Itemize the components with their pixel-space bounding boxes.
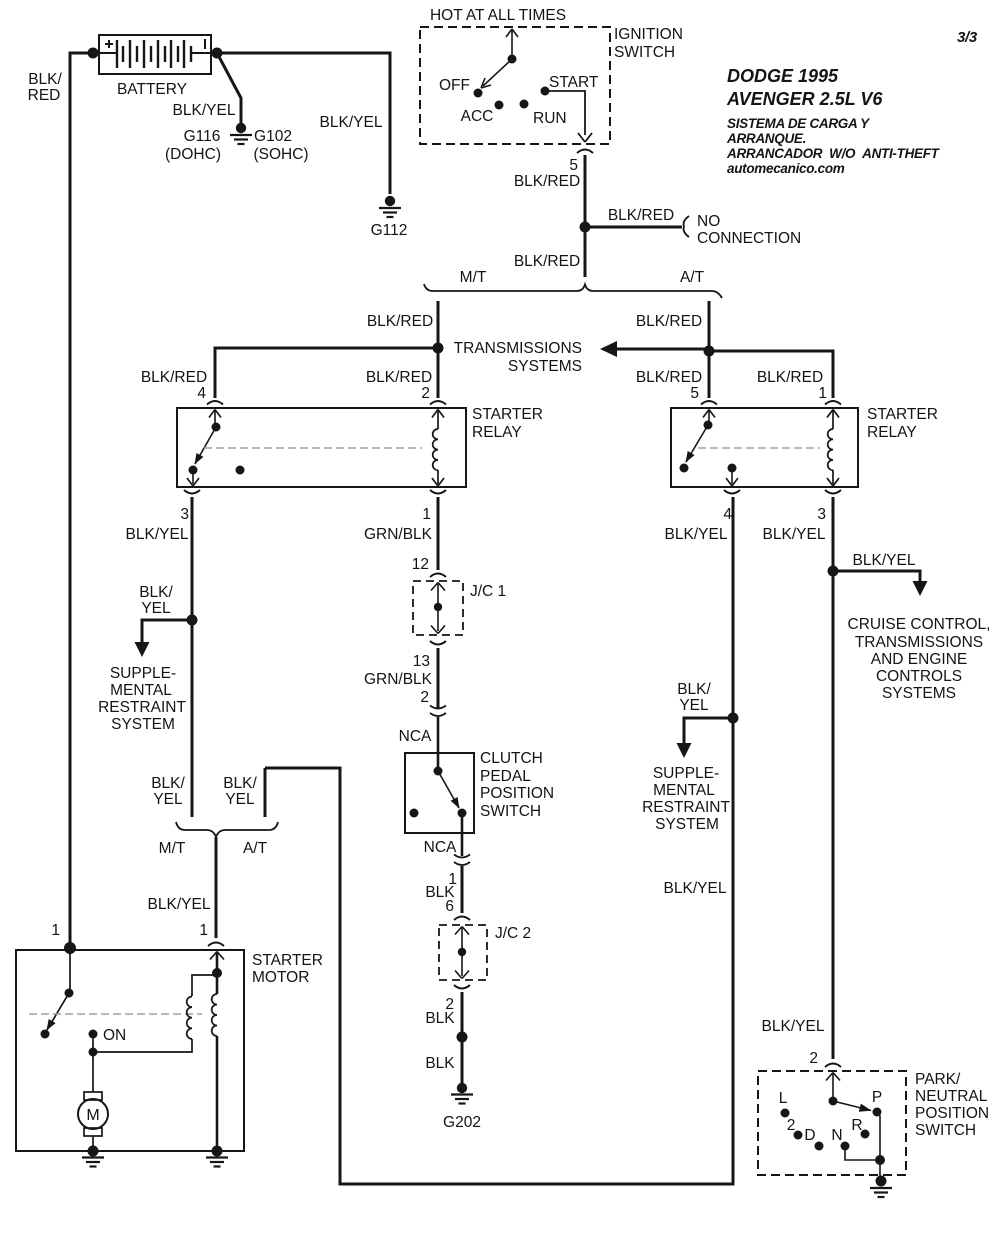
svg-text:NCA: NCA bbox=[399, 728, 432, 745]
wire arrow to transmissions systems bbox=[612, 348, 709, 351]
connector right relay pin 5 bbox=[701, 401, 717, 405]
svg-text:AVENGER 2.5L V6: AVENGER 2.5L V6 bbox=[726, 89, 883, 109]
svg-text:SYSTEM: SYSTEM bbox=[111, 716, 175, 733]
svg-text:2: 2 bbox=[787, 1117, 796, 1134]
svg-text:J/C 1: J/C 1 bbox=[470, 583, 506, 600]
svg-text:STARTER: STARTER bbox=[867, 406, 938, 423]
brace M/T - A/T merge bbox=[176, 822, 278, 837]
wire left relay pin3 down (BLK/YEL) bbox=[191, 497, 194, 817]
svg-text:2: 2 bbox=[809, 1050, 818, 1067]
svg-text:1: 1 bbox=[422, 506, 431, 523]
svg-text:M/T: M/T bbox=[159, 840, 186, 857]
node N contact bbox=[841, 1142, 850, 1151]
svg-text:BLK/RED: BLK/RED bbox=[514, 253, 580, 270]
node battery negative terminal bbox=[212, 48, 223, 59]
svg-text:BLK/YEL: BLK/YEL bbox=[320, 114, 383, 131]
svg-text:SWITCH: SWITCH bbox=[915, 1122, 976, 1139]
starter motor battery cable bbox=[210, 952, 224, 1152]
brace M/T - A/T split bbox=[424, 284, 722, 298]
svg-text:IGNITION: IGNITION bbox=[614, 26, 683, 43]
svg-text:NO: NO bbox=[697, 213, 720, 230]
node P/N ground junction bbox=[875, 1155, 885, 1165]
node starter motor battery input bbox=[64, 942, 76, 954]
node left relay pivot bbox=[212, 423, 221, 432]
svg-text:BATTERY: BATTERY bbox=[117, 81, 187, 98]
svg-text:SISTEMA DE CARGA Y: SISTEMA DE CARGA Y bbox=[727, 116, 871, 131]
svg-text:BLK/YEL: BLK/YEL bbox=[762, 1018, 825, 1035]
svg-text:A/T: A/T bbox=[243, 840, 268, 857]
wire splice to right relay pin 1 bbox=[709, 351, 833, 398]
node left relay contact to pin 3 bbox=[189, 466, 198, 475]
left relay coil bbox=[432, 410, 444, 487]
svg-text:DODGE 1995: DODGE 1995 bbox=[727, 66, 839, 86]
wire J/C1 to clutch switch (GRN/BLK) bbox=[437, 648, 440, 709]
svg-text:BLK/RED: BLK/RED bbox=[636, 369, 702, 386]
node P contact bbox=[873, 1108, 882, 1117]
node A/T splice bbox=[704, 346, 715, 357]
connector J/C 1 bottom bbox=[430, 641, 446, 645]
connector left relay pin 4 bbox=[207, 401, 223, 405]
left starter relay box bbox=[177, 408, 466, 487]
svg-text:(DOHC): (DOHC) bbox=[165, 146, 221, 163]
svg-text:3/3: 3/3 bbox=[957, 29, 978, 46]
svg-text:TRANSMISSIONS: TRANSMISSIONS bbox=[454, 340, 582, 357]
svg-text:SWITCH: SWITCH bbox=[614, 44, 675, 61]
node battery positive terminal bbox=[88, 48, 99, 59]
ground G202 bbox=[451, 1083, 473, 1104]
svg-text:3: 3 bbox=[817, 506, 826, 523]
wire START output inside ignition switch bbox=[545, 91, 592, 142]
svg-text:STARTER: STARTER bbox=[252, 952, 323, 969]
svg-text:G102: G102 bbox=[254, 128, 292, 145]
svg-text:SYSTEMS: SYSTEMS bbox=[508, 358, 582, 375]
svg-text:GRN/BLK: GRN/BLK bbox=[364, 671, 433, 688]
svg-text:BLK/YEL: BLK/YEL bbox=[173, 102, 236, 119]
motor M bbox=[78, 1052, 108, 1151]
svg-text:CRUISE CONTROL,: CRUISE CONTROL, bbox=[848, 616, 991, 633]
svg-text:RED: RED bbox=[28, 87, 61, 104]
svg-text:POSITION: POSITION bbox=[915, 1105, 989, 1122]
svg-text:START: START bbox=[549, 74, 599, 91]
svg-text:YEL: YEL bbox=[225, 791, 255, 808]
node right relay pivot bbox=[704, 421, 713, 430]
junction connector J/C 1 dashed box bbox=[413, 581, 463, 635]
ground G112 bbox=[379, 196, 401, 217]
svg-text:ON: ON bbox=[103, 1027, 126, 1044]
svg-text:BLK/YEL: BLK/YEL bbox=[763, 526, 826, 543]
wire A/T branch down (BLK/RED) bbox=[708, 301, 711, 351]
node clutch switch open contact bbox=[410, 809, 419, 818]
right relay switch bbox=[686, 410, 715, 463]
starter motor box bbox=[16, 950, 244, 1151]
ignition switch arrow to hot feed bbox=[506, 29, 518, 59]
node OFF contact bbox=[474, 89, 483, 98]
svg-text:YEL: YEL bbox=[141, 600, 171, 617]
svg-text:MENTAL: MENTAL bbox=[110, 682, 172, 699]
node park/neutral pivot bbox=[829, 1097, 838, 1106]
svg-text:SUPPLE-: SUPPLE- bbox=[653, 765, 719, 782]
svg-text:GRN/BLK: GRN/BLK bbox=[364, 526, 433, 543]
node cable ground bbox=[212, 1146, 223, 1157]
wire P and N contacts to ground bbox=[845, 1112, 880, 1177]
left relay switch bbox=[187, 410, 221, 487]
svg-text:ARRANCADOR W/O ANTI-THEFT: ARRANCADOR W/O ANTI-THEFT bbox=[726, 146, 941, 161]
right relay coil bbox=[827, 410, 839, 487]
wire ON contact to coil bbox=[93, 1034, 192, 1052]
node right relay open contact bbox=[680, 464, 689, 473]
connector pin 5 ignition bbox=[577, 150, 593, 154]
svg-text:CONTROLS: CONTROLS bbox=[876, 668, 962, 685]
svg-text:12: 12 bbox=[412, 556, 429, 573]
connector inline pair (clutch harness) bbox=[430, 706, 446, 709]
svg-text:SYSTEM: SYSTEM bbox=[655, 816, 719, 833]
solenoid pull-in coil bbox=[187, 975, 217, 1039]
wire M/T branch down (BLK/RED) bbox=[437, 301, 440, 348]
svg-text:1: 1 bbox=[51, 922, 60, 939]
wire right relay pin3 down (BLK/YEL) bbox=[832, 497, 835, 1059]
svg-text:5: 5 bbox=[690, 385, 699, 402]
park/neutral position switch dashed box bbox=[758, 1071, 906, 1175]
wire right relay pin4 down (BLK/YEL) bbox=[265, 497, 733, 1184]
svg-text:BLK/YEL: BLK/YEL bbox=[126, 526, 189, 543]
right relay contact arrow to pin 4 bbox=[726, 468, 738, 486]
clutch switch contacts bbox=[434, 767, 443, 776]
svg-text:4: 4 bbox=[723, 506, 732, 523]
right starter relay box bbox=[671, 408, 858, 487]
svg-text:R: R bbox=[851, 1117, 862, 1134]
svg-text:3: 3 bbox=[180, 506, 189, 523]
connector right relay pin 1 bbox=[825, 401, 841, 405]
svg-text:automecanico.com: automecanico.com bbox=[727, 161, 845, 176]
svg-text:BLK/YEL: BLK/YEL bbox=[148, 896, 211, 913]
connector J/C 2 bottom bbox=[454, 985, 470, 989]
J/C 2 internal arrows and node bbox=[455, 927, 469, 979]
svg-text:TRANSMISSIONS: TRANSMISSIONS bbox=[855, 634, 983, 651]
svg-text:2: 2 bbox=[421, 385, 430, 402]
svg-text:PARK/: PARK/ bbox=[915, 1071, 961, 1088]
node 2 contact bbox=[794, 1131, 803, 1140]
svg-text:OFF: OFF bbox=[439, 77, 470, 94]
node ON lower bbox=[89, 1048, 98, 1057]
svg-text:BLK/YEL: BLK/YEL bbox=[665, 526, 728, 543]
svg-text:NEUTRAL: NEUTRAL bbox=[915, 1088, 988, 1105]
wire J/C2 to ground G202 (BLK) bbox=[461, 992, 464, 1083]
connector starter motor pin 1 bbox=[208, 943, 224, 947]
junction connector J/C 2 dashed box bbox=[439, 925, 487, 980]
connector half no connection bbox=[684, 216, 689, 237]
node solenoid coil junction bbox=[212, 968, 222, 978]
svg-text:RELAY: RELAY bbox=[472, 424, 522, 441]
node R contact bbox=[861, 1130, 870, 1139]
wire to supplemental restraint system (right) bbox=[684, 718, 733, 744]
node solenoid open contact bbox=[41, 1030, 50, 1039]
ignition switch wiper arm bbox=[481, 59, 512, 88]
connector left relay pin 1 bbox=[430, 490, 446, 494]
svg-text:BLK/: BLK/ bbox=[223, 775, 257, 792]
svg-text:BLK/: BLK/ bbox=[151, 775, 185, 792]
wire left relay pin1 down (GRN/BLK) bbox=[437, 497, 440, 570]
node ignition pivot bbox=[508, 55, 517, 64]
node solenoid pivot bbox=[65, 989, 74, 998]
right relay armature dashed link bbox=[698, 447, 820, 449]
svg-text:BLK: BLK bbox=[425, 1055, 455, 1072]
node cruise control splice bbox=[828, 566, 839, 577]
svg-text:MOTOR: MOTOR bbox=[252, 969, 309, 986]
wire to cruise control systems bbox=[833, 571, 920, 582]
wire clutch switch output (NCA) bbox=[461, 813, 464, 856]
wire splice to right relay pin 5 bbox=[708, 351, 711, 398]
J/C 1 internal arrows and node bbox=[431, 583, 445, 634]
node SRS splice right bbox=[728, 713, 739, 724]
svg-text:5: 5 bbox=[569, 157, 578, 174]
ground cable case bbox=[206, 1158, 228, 1167]
svg-text:SWITCH: SWITCH bbox=[480, 803, 541, 820]
svg-text:BLK/RED: BLK/RED bbox=[757, 369, 823, 386]
svg-text:BLK/YEL: BLK/YEL bbox=[853, 552, 916, 569]
battery B1 bbox=[99, 35, 211, 74]
svg-text:1: 1 bbox=[818, 385, 827, 402]
left relay armature dashed link bbox=[204, 447, 422, 449]
wire connector to clutch switch bbox=[437, 717, 440, 771]
wire merged to starter motor (BLK/YEL) bbox=[215, 837, 218, 938]
park/neutral switch arm bbox=[826, 1073, 872, 1112]
svg-text:BLK/RED: BLK/RED bbox=[141, 369, 207, 386]
connector left relay pin 2 bbox=[430, 401, 446, 405]
svg-text:YEL: YEL bbox=[153, 791, 183, 808]
svg-text:D: D bbox=[804, 1127, 815, 1144]
wire ignition to splice (BLK/RED) bbox=[584, 155, 587, 277]
svg-text:G202: G202 bbox=[443, 1114, 481, 1131]
svg-text:HOT AT ALL TIMES: HOT AT ALL TIMES bbox=[430, 7, 566, 24]
ground park/neutral bbox=[870, 1176, 892, 1198]
svg-text:ACC: ACC bbox=[461, 108, 494, 125]
wire battery negative to G112 (BLK/YEL) bbox=[211, 53, 390, 194]
svg-text:BLK/RED: BLK/RED bbox=[367, 313, 433, 330]
svg-text:BLK: BLK bbox=[425, 1010, 455, 1027]
node M/T splice bbox=[433, 343, 444, 354]
connector right relay pin 4 bbox=[724, 490, 740, 494]
ground motor case bbox=[82, 1158, 104, 1167]
node motor ground bbox=[88, 1146, 99, 1157]
svg-text:BLK/RED: BLK/RED bbox=[514, 173, 580, 190]
wire to J/C 2 (BLK) bbox=[461, 866, 464, 913]
svg-text:BLK/YEL: BLK/YEL bbox=[664, 880, 727, 897]
svg-text:BLK/RED: BLK/RED bbox=[636, 313, 702, 330]
wire battery negative to G116/G102 (BLK/YEL) bbox=[217, 53, 241, 123]
svg-text:ARRANQUE.: ARRANQUE. bbox=[726, 131, 806, 146]
svg-text:SUPPLE-: SUPPLE- bbox=[110, 665, 176, 682]
ignition switch dashed box bbox=[420, 27, 610, 144]
node splice BLK bbox=[457, 1032, 468, 1043]
node START contact bbox=[541, 87, 550, 96]
svg-text:STARTER: STARTER bbox=[472, 406, 543, 423]
svg-text:2: 2 bbox=[420, 689, 429, 706]
svg-text:BLK/: BLK/ bbox=[139, 584, 173, 601]
connector J/C 1 top bbox=[430, 574, 446, 578]
node ON contact bbox=[89, 1030, 98, 1039]
connector inline pair (output) bbox=[454, 855, 470, 858]
starter motor dashed link bbox=[29, 1013, 202, 1015]
svg-text:J/C 2: J/C 2 bbox=[495, 925, 531, 942]
svg-text:(SOHC): (SOHC) bbox=[253, 146, 308, 163]
svg-text:P: P bbox=[872, 1089, 882, 1106]
svg-text:M/T: M/T bbox=[460, 269, 487, 286]
svg-text:POSITION: POSITION bbox=[480, 785, 554, 802]
wire splice to left relay pin 2 bbox=[437, 348, 440, 398]
node L contact bbox=[781, 1109, 790, 1118]
svg-text:4: 4 bbox=[197, 385, 206, 402]
svg-text:BLK/: BLK/ bbox=[28, 71, 62, 88]
ground G116/G102 bbox=[230, 123, 252, 144]
svg-text:M: M bbox=[86, 1107, 99, 1124]
wire no-connection stub (BLK/RED) bbox=[585, 226, 682, 229]
svg-text:BLK/RED: BLK/RED bbox=[608, 207, 674, 224]
svg-text:CLUTCH: CLUTCH bbox=[480, 750, 543, 767]
svg-text:CONNECTION: CONNECTION bbox=[697, 230, 801, 247]
svg-text:N: N bbox=[831, 1127, 842, 1144]
svg-text:6: 6 bbox=[445, 898, 454, 915]
svg-text:AND ENGINE: AND ENGINE bbox=[871, 651, 967, 668]
svg-text:1: 1 bbox=[199, 922, 208, 939]
node RUN contact bbox=[520, 100, 529, 109]
connector J/C 2 top bbox=[454, 917, 470, 921]
svg-text:RESTRAINT: RESTRAINT bbox=[642, 799, 730, 816]
connector right relay pin 3 bbox=[825, 490, 841, 494]
node right relay contact to pin 4 bbox=[728, 464, 737, 473]
node ACC contact bbox=[495, 101, 504, 110]
svg-text:RELAY: RELAY bbox=[867, 424, 917, 441]
svg-text:MENTAL: MENTAL bbox=[653, 782, 715, 799]
svg-text:PEDAL: PEDAL bbox=[480, 768, 531, 785]
node splice BLK/RED bbox=[580, 222, 591, 233]
svg-text:13: 13 bbox=[413, 653, 430, 670]
connector park/neutral pin 2 bbox=[825, 1064, 841, 1068]
starter solenoid switch bbox=[47, 950, 71, 1031]
wire splice to left relay pin 4 bbox=[215, 348, 438, 398]
node D contact bbox=[815, 1142, 824, 1151]
node SRS splice left bbox=[187, 615, 198, 626]
svg-text:SYSTEMS: SYSTEMS bbox=[882, 685, 956, 702]
svg-text:RUN: RUN bbox=[533, 110, 567, 127]
svg-text:L: L bbox=[779, 1090, 788, 1107]
svg-text:BLK/: BLK/ bbox=[677, 681, 711, 698]
wire A/T return branch bbox=[264, 768, 267, 817]
clutch pedal position switch box bbox=[405, 753, 474, 833]
svg-text:YEL: YEL bbox=[679, 697, 709, 714]
wire battery positive to starter motor (BLK/RED) bbox=[70, 53, 99, 949]
svg-text:RESTRAINT: RESTRAINT bbox=[98, 699, 186, 716]
node left relay open contact bbox=[236, 466, 245, 475]
wire to supplemental restraint system (left) bbox=[142, 620, 192, 643]
svg-text:G116: G116 bbox=[184, 128, 221, 145]
svg-text:G112: G112 bbox=[371, 222, 408, 239]
svg-text:NCA: NCA bbox=[424, 839, 457, 856]
svg-text:A/T: A/T bbox=[680, 269, 705, 286]
connector left relay pin 3 bbox=[184, 490, 200, 494]
svg-text:BLK/RED: BLK/RED bbox=[366, 369, 432, 386]
